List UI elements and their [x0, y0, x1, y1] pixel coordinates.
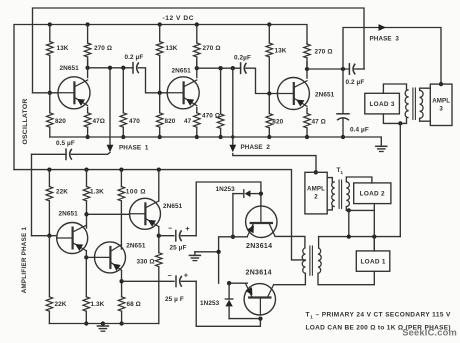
resistor R13 820 [266, 94, 284, 138]
wire QC base line [87, 213, 130, 215]
wire amplifier supply bus [14, 170, 305, 260]
svg-text:25 µ F: 25 µ F [165, 296, 184, 303]
svg-text:1N253: 1N253 [200, 300, 220, 307]
ground amplifier [97, 324, 108, 332]
wire AMPL2 to T2 primary bottom [327, 207, 332, 210]
svg-text:2N3614: 2N3614 [246, 270, 272, 277]
resistor R15 22K [46, 170, 68, 236]
transistor Q2 2N651 [167, 67, 199, 109]
svg-text:0.2µF: 0.2µF [234, 55, 251, 62]
wire phase3 line [343, 28, 441, 85]
node C4 bottom [341, 135, 345, 139]
node phase3 / 0.4uF tap [341, 67, 345, 71]
label AMPLIFIER PHASE 1 [21, 226, 28, 293]
wire Q4 collector to T1 [275, 236, 305, 248]
ground oscillator [376, 146, 387, 151]
svg-text:+: + [185, 224, 190, 233]
wire QB base [86, 256, 95, 258]
wire Q3 collector [306, 62, 308, 78]
svg-text:0.2 µF: 0.2 µF [346, 79, 365, 86]
transformer T2 primary [332, 182, 335, 207]
wire LOAD2 bottom to LOAD1 top [373, 204, 375, 251]
svg-text:47Ω: 47Ω [93, 118, 106, 125]
svg-text:2N651: 2N651 [59, 210, 79, 217]
resistor R21 22K lower [46, 236, 67, 324]
resistor R14 47 [304, 108, 326, 137]
transistor Q1 2N651 [58, 65, 90, 109]
node 1.3K R16 top [84, 167, 88, 171]
wire lower emitter rail [229, 282, 247, 284]
wire QA emitter to node [85, 251, 87, 258]
svg-text:PHASE 2: PHASE 2 [241, 144, 271, 151]
svg-text:+: + [184, 270, 189, 279]
resistor R17 1.3K lower [83, 257, 105, 323]
svg-text:270 Ω: 270 Ω [203, 45, 221, 52]
svg-text:22K: 22K [55, 301, 67, 308]
wire T3 secondary bottom to AMPL3 [420, 118, 431, 121]
resistor R19 68 [118, 297, 141, 324]
svg-text:270 Ω: 270 Ω [315, 49, 333, 56]
wire -12V DC bus [14, 25, 307, 170]
wire C3 to frame [355, 68, 364, 70]
wire LOAD3 to neutral bus [399, 123, 401, 236]
amplifier AMPL 2 [305, 172, 327, 214]
node AMPL2 input [314, 170, 318, 174]
node R17 bottom [84, 321, 88, 325]
resistor R8 820 [156, 93, 175, 137]
svg-text:13K: 13K [275, 48, 287, 55]
wire lower base path [196, 281, 260, 326]
transistor Q4 2N3614 upper [246, 206, 277, 250]
diode D2 1N253 [200, 283, 260, 318]
ground push-pull mid [189, 252, 200, 261]
svg-text:2N651: 2N651 [163, 203, 183, 210]
wire tap to neutral [348, 210, 350, 236]
node 270ohm R2 top [85, 22, 89, 26]
node 470 R5 top [121, 66, 125, 70]
svg-text:47: 47 [184, 118, 192, 125]
node stage3 collector [305, 67, 309, 71]
wire Q2 collector [196, 61, 198, 78]
arrow phase1 [107, 145, 114, 153]
svg-text:PHASE 3: PHASE 3 [370, 36, 400, 43]
resistor R12 270 [304, 43, 333, 69]
transistor QB 2N651 [95, 242, 146, 273]
label PHASE 2 [241, 144, 271, 151]
wire phase2 drop [232, 68, 234, 145]
node QB emitter branch [119, 279, 123, 283]
resistor R9 47 [184, 108, 200, 138]
label OSCILLATOR [22, 98, 29, 144]
svg-text:0.2 µF: 0.2 µF [125, 54, 144, 61]
svg-text:820: 820 [165, 118, 176, 125]
transformer T3 primary [405, 90, 408, 118]
node lower diode / rail [227, 281, 231, 285]
wire QA collector [86, 214, 88, 228]
svg-text:25 µF: 25 µF [170, 245, 187, 252]
resistor R11 13K [266, 25, 287, 94]
wire oscillator feedback loop top frame [33, 8, 365, 93]
node phase2 bus crossing [231, 135, 234, 138]
svg-text:1: 1 [310, 315, 313, 320]
node diode to emitter rail [231, 235, 235, 239]
wire T1 secondary top to neutral [318, 237, 320, 248]
label PHASE 1 [119, 145, 149, 152]
wire QC collector [158, 170, 160, 201]
node stage2 collector [195, 66, 199, 70]
watermark SeekIC.com [402, 328, 457, 338]
transistor Q3 2N651 [277, 78, 334, 110]
note load spec line2 [306, 325, 451, 332]
capacitor C6 25uF upper [159, 224, 196, 251]
svg-text:470 Ω: 470 Ω [202, 113, 220, 120]
wire 0.5uF feed down [31, 154, 33, 235]
capacitor C5 0.5uF [32, 140, 111, 160]
node QC collector bus [157, 167, 161, 171]
node 270 R7 top [195, 22, 199, 26]
wire upper base path [196, 182, 261, 236]
node 100ohm R18 top [119, 167, 123, 171]
wire QA base [32, 235, 58, 237]
svg-text:100 Ω: 100 Ω [126, 189, 146, 196]
svg-text:0.4 µF: 0.4 µF [350, 127, 369, 134]
svg-text:2N3614: 2N3614 [246, 243, 272, 250]
label PHASE 3 [370, 36, 400, 43]
amplifier AMPL 3 [430, 84, 452, 125]
node QC emitter / 330 [157, 234, 161, 238]
svg-text:AMPL: AMPL [432, 98, 450, 105]
wire stage1 base [33, 92, 59, 94]
transformer T2 core [339, 180, 342, 208]
svg-text:470: 470 [129, 118, 140, 125]
svg-text:22K: 22K [56, 189, 68, 196]
node AMPL3 input [439, 82, 443, 86]
svg-text:1N253: 1N253 [216, 186, 236, 193]
svg-text:2N651: 2N651 [172, 67, 192, 74]
transformer T2 secondary [346, 182, 349, 207]
transistor Q5 2N3614 lower [244, 270, 275, 315]
svg-text:0.5 µF: 0.5 µF [56, 140, 75, 147]
node 13K R11 top [267, 22, 271, 26]
wire phase1 drop [109, 68, 111, 145]
capacitor C7 25uF lower [122, 270, 197, 302]
svg-text:-12 V DC: -12 V DC [163, 15, 195, 22]
wire stage2 collector node [197, 67, 241, 69]
node T2 sec bottom tap [347, 208, 351, 212]
svg-text:820: 820 [55, 118, 66, 125]
svg-text:13K: 13K [166, 45, 178, 52]
wire phase2 to AMPL2 [233, 154, 316, 173]
node lower base [258, 316, 262, 320]
resistor R10 470 [202, 68, 224, 137]
transistor QA 2N651 [57, 210, 88, 253]
wire T1 secondary bottom to LOAD1 [318, 271, 374, 284]
wire oscillator emitter bus [50, 137, 382, 146]
wire neutral bus [319, 236, 401, 238]
node LOAD1 neutral [372, 234, 376, 238]
node R13 bottom [267, 135, 271, 139]
node tap neutral [347, 234, 351, 238]
svg-text:2: 2 [314, 194, 318, 201]
resistor R4 47 [84, 108, 105, 138]
transformer T1 core [310, 246, 313, 275]
svg-text:LOAD 2: LOAD 2 [360, 190, 385, 197]
wire Q1 collector [87, 60, 89, 78]
capacitor C1 0.2uF [125, 54, 144, 73]
node stage3 base [267, 91, 271, 95]
svg-text:2N651: 2N651 [315, 91, 335, 98]
capacitor C4 0.4uF [337, 69, 369, 137]
load LOAD 3 [365, 93, 400, 114]
wire Q5 collector to T1 [274, 273, 306, 284]
node phase2 tap [231, 66, 235, 70]
node phase1 tap [108, 66, 112, 70]
capacitor C3 0.2uF [346, 64, 365, 87]
svg-text:68 Ω: 68 Ω [127, 301, 141, 308]
transistor QC 2N651 [130, 198, 183, 229]
resistor R5 470 [120, 68, 140, 137]
node QC base / QA collector [84, 212, 88, 216]
wire upper emitter rail [219, 237, 248, 283]
wire T3 secondary top to AMPL3 [420, 88, 431, 90]
svg-text:330 Ω: 330 Ω [137, 259, 155, 266]
node R14 bottom [305, 135, 309, 139]
label T1 [337, 167, 344, 175]
node ground stem [101, 321, 105, 325]
svg-text:−: − [168, 273, 172, 280]
node stage1 collector [85, 66, 89, 70]
node R4 bottom [85, 135, 89, 139]
wire LOAD3 bottom bracket [383, 114, 406, 124]
node R8 bottom [158, 135, 162, 139]
node 22K R15 top [47, 167, 51, 171]
svg-text:1.3K: 1.3K [90, 189, 104, 196]
wire T2 secondary top to LOAD2 [346, 177, 372, 183]
capacitor C2 0.2uF [234, 55, 251, 74]
svg-text:2N651: 2N651 [60, 65, 80, 72]
wire amplifier bottom bus [49, 323, 158, 325]
wire LOAD1 top [373, 237, 375, 251]
node stage1 base [48, 91, 52, 95]
node R9 bottom [195, 135, 199, 139]
svg-text:AMPLIFIER PHASE 1: AMPLIFIER PHASE 1 [21, 226, 28, 293]
svg-text:−: − [168, 226, 172, 233]
svg-text:13K: 13K [57, 45, 69, 52]
svg-text:– PRIMARY 24 V CT SECONDARY 11: – PRIMARY 24 V CT SECONDARY 115 V [316, 312, 452, 319]
resistor R1 13K [47, 25, 69, 93]
resistor R16 1.3K [83, 170, 104, 215]
svg-text:1.3K: 1.3K [91, 301, 105, 308]
svg-text:47 Ω: 47 Ω [312, 119, 326, 126]
svg-text:LOAD 1: LOAD 1 [360, 258, 385, 265]
node R5 bottom [121, 135, 125, 139]
node R19 bottom [119, 321, 123, 325]
node R10 bottom [218, 135, 222, 139]
svg-text:OSCILLATOR: OSCILLATOR [22, 98, 29, 144]
diode D1 1N253 [216, 186, 261, 237]
wire C1 to stage2 base [138, 68, 168, 93]
resistor R2 270 [84, 25, 112, 68]
node mid stub [216, 250, 220, 254]
transformer T1 secondary [318, 248, 321, 273]
wire QB emitter down [121, 270, 123, 296]
wire stage1 collector node [88, 67, 133, 69]
wire ground stub mid [195, 251, 219, 253]
node 470 R10 top [218, 66, 222, 70]
svg-text:T: T [306, 312, 310, 319]
node 13K R6 top [158, 22, 162, 26]
node LOAD3 neutral tap [398, 121, 402, 125]
resistor R7 270 [194, 25, 221, 69]
arrow phase2 [229, 145, 236, 153]
wire LOAD3 top bracket [383, 84, 406, 93]
svg-text:2N651: 2N651 [126, 242, 146, 249]
note T1 spec line1 [306, 312, 452, 320]
transformer T3 secondary [420, 90, 424, 118]
resistor R20 330 [137, 236, 163, 324]
wire QC emitter to node [158, 227, 160, 236]
svg-text:SeekIC.com: SeekIC.com [402, 328, 457, 338]
svg-text:LOAD 3: LOAD 3 [369, 101, 394, 108]
load LOAD 1 [356, 251, 390, 271]
svg-text:AMPL: AMPL [307, 186, 325, 193]
node QA emitter / QB base [84, 255, 88, 259]
label -12 V DC [163, 15, 195, 22]
resistor R6 13K [156, 25, 177, 93]
node 13K R1 top [48, 22, 52, 26]
svg-text:PHASE 1: PHASE 1 [119, 145, 149, 152]
resistor R18 100 [118, 170, 146, 249]
node QA base / 22K [47, 234, 51, 238]
wire stage3 collector node [307, 68, 349, 70]
transformer T3 core [413, 88, 416, 120]
load LOAD 2 [354, 183, 391, 204]
svg-text:820: 820 [272, 119, 283, 126]
wire C2 to stage3 base [246, 68, 278, 93]
svg-text:3: 3 [439, 106, 443, 113]
wire AMPL2 to T2 primary top [327, 178, 332, 182]
resistor R3 820 [47, 93, 67, 137]
transformer T1 primary [302, 248, 305, 273]
wire T2 secondary bottom bracket [346, 207, 374, 211]
node upper base / diode [259, 191, 263, 195]
arrow phase3 [379, 24, 387, 31]
svg-text:270 Ω: 270 Ω [94, 45, 112, 52]
node stage2 base [158, 91, 162, 95]
